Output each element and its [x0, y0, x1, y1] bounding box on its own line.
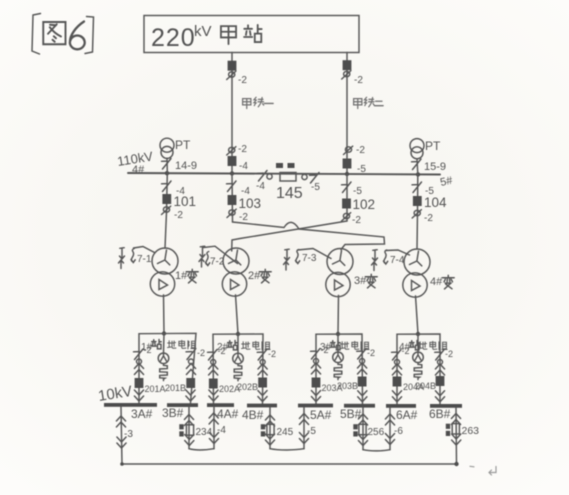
- svg-text:245: 245: [277, 427, 294, 438]
- feeder 103: bus 4# down: [231, 173, 234, 222]
- box 4: top bar and side wires: [397, 334, 440, 404]
- breaker 204B: [436, 376, 445, 386]
- svg-text:-2: -2: [174, 210, 183, 221]
- svg-text:101: 101: [174, 194, 197, 209]
- breaker 145: [280, 173, 296, 182]
- svg-text:-2: -2: [356, 145, 365, 156]
- svg-text:-2: -2: [197, 348, 205, 358]
- wire PT1 to bus: [166, 159, 168, 174]
- tie 234: wire under bus 3B#: [188, 407, 190, 449]
- svg-text:204B: 204B: [415, 381, 436, 391]
- breaker 103: [228, 195, 237, 205]
- breaker 202A: [209, 379, 218, 389]
- node: box1 junction: [162, 331, 166, 335]
- disconnector -2 (104): [412, 210, 421, 218]
- feeder 102: bus 5# down: [346, 174, 348, 221]
- svg-text:-2: -2: [238, 144, 247, 155]
- svg-text:7-2: 7-2: [210, 257, 225, 268]
- svg-text:-2: -2: [352, 215, 361, 226]
- feeder arrows (box4 left): [392, 364, 401, 375]
- svg-text:202B: 202B: [237, 382, 258, 392]
- breaker -5 on line 2: [343, 159, 352, 169]
- arrow onto bus 6A#: [392, 391, 401, 402]
- svg-text:4A#: 4A#: [217, 407, 239, 421]
- CT (256): [353, 424, 357, 436]
- breaker 201B: [186, 378, 195, 388]
- node: bus junction PT1: [165, 171, 169, 175]
- svg-text:7-4: 7-4: [390, 255, 405, 266]
- svg-text:-5: -5: [307, 426, 316, 437]
- svg-text:201A: 201A: [145, 384, 166, 394]
- arrow onto bus 4A#: [209, 390, 218, 401]
- node: box2 junction: [236, 332, 240, 336]
- arrester group 7-3: [284, 249, 332, 271]
- breaker 101: [162, 194, 171, 204]
- station box 220kV 甲站: [144, 16, 359, 53]
- disconnector -2 (box4 left): [392, 350, 402, 361]
- svg-text:4B#: 4B#: [242, 408, 264, 422]
- bus 5A#: [298, 404, 333, 408]
- svg-text:4#: 4#: [430, 276, 443, 288]
- node: bus junction line2: [345, 172, 349, 176]
- bus 4B#: [247, 404, 277, 408]
- tie 234 U link: [189, 449, 214, 450]
- arrow onto bus 5A#: [311, 391, 320, 402]
- svg-text:PT: PT: [425, 139, 441, 153]
- box 1: top bar and side wires: [139, 333, 196, 403]
- wire: transformer 1 secondary: [163, 295, 166, 334]
- wire: transformer 2 secondary: [236, 295, 239, 334]
- wire: transformer 3 secondary: [337, 295, 340, 334]
- disconnector -2 (box4 right): [435, 350, 445, 361]
- feeder arrows (box1 right): [186, 364, 195, 375]
- tie 256: wire under bus 5B#: [362, 408, 364, 450]
- tie 245 U link: [270, 449, 304, 450]
- svg-text:3A#: 3A#: [131, 407, 153, 421]
- feeder arrows (box3 left): [311, 363, 320, 374]
- line name 甲线一: [243, 97, 274, 108]
- tie 245: wire under bus 4B#: [269, 408, 271, 449]
- breaker 263: [452, 424, 459, 434]
- svg-text:6B#: 6B#: [429, 407, 451, 421]
- disconnector -2 on line 1 (top): [227, 71, 236, 79]
- svg-text:-6: -6: [394, 426, 403, 437]
- earth switch circle (box2 right): [260, 360, 265, 365]
- svg-text:102: 102: [353, 197, 376, 212]
- svg-text:-2: -2: [424, 213, 433, 224]
- disconnector 14-9: [162, 159, 172, 170]
- transformer 4#变: [403, 249, 454, 297]
- small circle left of 145: [267, 174, 272, 179]
- grounding transformer (box1): [163, 334, 166, 353]
- line name 甲线二: [354, 97, 384, 108]
- node: bus junction PT2: [416, 172, 420, 176]
- disconnector -2 (box1 left): [134, 349, 144, 360]
- feeder arrows (box4 right): [435, 364, 444, 375]
- svg-text:14-9: 14-9: [175, 160, 197, 172]
- arrow onto bus 3B#: [186, 390, 195, 401]
- bus 3B#: [167, 403, 198, 407]
- disconnector -5 (104): [412, 182, 422, 193]
- breaker -4 on line 1: [228, 156, 237, 166]
- feeder 101: bus 4# to transformer 1: [165, 173, 167, 248]
- wire: transformer 4 secondary: [416, 296, 419, 334]
- small circle right of 145: [302, 174, 307, 179]
- svg-text:-2: -2: [218, 346, 226, 356]
- arrester group 7-1: [119, 247, 155, 269]
- disconnector -2 on line 1 (lower): [227, 147, 236, 155]
- arrester group 7-2: [199, 246, 238, 267]
- svg-text:256: 256: [368, 427, 385, 438]
- node: bus junction line1: [230, 171, 234, 175]
- svg-text:15-9: 15-9: [424, 161, 446, 173]
- wire PT2 to bus: [416, 159, 419, 174]
- node: box4 junction: [416, 332, 420, 336]
- arrow onto bus 4B#: [258, 391, 267, 402]
- grounding transformer (box4): [417, 334, 419, 352]
- earth switch circle (box4 right): [438, 360, 443, 365]
- header 接地电阻 (box3): [341, 341, 370, 350]
- wire: crossover 102 to transformer 2: [232, 221, 347, 251]
- disconnector -4 (101): [162, 181, 172, 192]
- svg-text:3B#: 3B#: [162, 406, 184, 420]
- arrow onto bus 6B#: [435, 391, 444, 402]
- disconnector -2 (box3 right): [357, 349, 367, 360]
- header 3#站变: [320, 340, 340, 353]
- header 2#站变: [217, 340, 237, 353]
- box 2: top bar and side wires: [213, 334, 263, 404]
- disconnector -2 (box2 left): [208, 350, 218, 361]
- bus 6A#: [386, 404, 416, 408]
- breaker 256: [359, 424, 366, 434]
- earth switch circle (box2 left): [211, 360, 216, 365]
- breaker 203B: [358, 377, 367, 387]
- wire: line 2 from station box: [346, 53, 348, 175]
- arrow onto bus 5B#: [358, 391, 367, 402]
- feeder -3 under bus 3A#: [121, 407, 122, 464]
- earth switch circle (box1 left): [137, 359, 142, 364]
- svg-text:5#: 5#: [439, 174, 454, 188]
- arrester group 7-4: [372, 250, 410, 271]
- svg-text:-2: -2: [402, 346, 410, 356]
- feeder arrows (box1 left): [134, 364, 143, 375]
- breaker 234: [186, 425, 193, 435]
- svg-text:kV: kV: [194, 23, 212, 40]
- breaker 204A: [393, 377, 402, 387]
- disconnector -2 (102): [342, 213, 351, 221]
- PT 2 (110kV bus 5#): [410, 139, 441, 159]
- breaker 201A: [135, 378, 144, 388]
- svg-text:-2: -2: [445, 349, 453, 359]
- header 接地电阻 (box2): [242, 341, 271, 350]
- breaker 104: [413, 196, 422, 206]
- breaker on line 1 (top): [228, 61, 237, 71]
- disconnector -2 (box1 right): [186, 349, 196, 360]
- svg-text:104: 104: [424, 195, 447, 210]
- stray pen mark: [489, 467, 496, 476]
- wire: line 1 from station box: [231, 53, 233, 174]
- breaker 102: [342, 199, 351, 209]
- svg-text:6A#: 6A#: [396, 408, 418, 422]
- svg-text:-2: -2: [238, 75, 247, 86]
- svg-text:-4: -4: [256, 181, 265, 192]
- disconnector -4 (103): [227, 181, 237, 192]
- earth switch circle (box3 right): [360, 359, 365, 364]
- svg-text:7-3: 7-3: [302, 253, 317, 264]
- svg-text:-5: -5: [353, 186, 362, 197]
- feeder 104: bus 5# to transformer 4: [416, 174, 419, 249]
- box 3: top bar and side wires: [316, 334, 363, 404]
- wire: crossover 103 to transformer 3 (with hop): [233, 222, 385, 250]
- header 接地电阻 (box1): [168, 340, 197, 349]
- disconnector -2 (103): [227, 209, 236, 217]
- tie 256 U link: [363, 450, 390, 451]
- PT 1 (110kV bus 4#): [160, 138, 191, 158]
- feeder -4 under bus 4A#: [213, 407, 215, 449]
- bus 5B#: [344, 404, 375, 408]
- feeder arrows (box2 left): [209, 364, 218, 375]
- svg-text:145: 145: [276, 185, 303, 202]
- disconnector -4 (145 left): [258, 171, 268, 182]
- CT (245): [261, 424, 265, 436]
- disconnector 15-9: [412, 159, 422, 170]
- disconnector -2 (101): [162, 206, 171, 214]
- header 1#站变: [141, 339, 161, 353]
- svg-text:-5: -5: [311, 182, 320, 193]
- disconnector -2 (box2 right): [257, 350, 267, 361]
- CT (234): [179, 424, 183, 436]
- earth switch circle (box3 left): [314, 359, 319, 364]
- disconnector -2 (box3 left): [311, 349, 321, 360]
- disconnector -5 (145 right): [310, 173, 320, 184]
- feeder arrows (box3 right): [358, 363, 367, 374]
- breaker 203A: [312, 378, 321, 388]
- svg-text:-4: -4: [239, 161, 248, 172]
- disconnector -2 on line 2 (lower): [344, 146, 353, 154]
- svg-text:5A#: 5A#: [310, 408, 332, 422]
- feeder -5 under bus 5A#: [303, 408, 305, 449]
- svg-text:-4: -4: [217, 425, 226, 436]
- bus 3A#: [104, 403, 157, 407]
- feeder -6 under bus 6A#: [389, 408, 391, 450]
- tie 263: wire under bus 6B#: [455, 408, 458, 464]
- grounding transformer (box3): [337, 334, 339, 352]
- svg-text:PT: PT: [175, 138, 191, 152]
- figure label 图6: [32, 14, 94, 55]
- CT marks above 145: [276, 163, 283, 168]
- earth switch circle (box1 right): [189, 359, 194, 364]
- feeder arrows (box2 right): [258, 364, 267, 375]
- svg-text:-2: -2: [367, 348, 375, 358]
- bus tie 145 assembly: [256, 163, 320, 202]
- disconnector -5 (102): [342, 182, 352, 193]
- svg-text:-2: -2: [321, 345, 329, 355]
- node: bottom left corner: [120, 462, 124, 466]
- svg-text:4#: 4#: [132, 164, 145, 176]
- svg-text:-2: -2: [239, 212, 248, 223]
- 110kV bus 4# (left) and 5# (right): [128, 173, 440, 175]
- bus 6B#: [430, 404, 462, 408]
- wire: bottom ring tie: [122, 463, 457, 465]
- svg-text:-2: -2: [144, 345, 152, 355]
- breaker 245: [267, 424, 274, 434]
- transformer 3#变: [326, 249, 377, 297]
- svg-text:7-1: 7-1: [137, 254, 152, 265]
- svg-text:10kV: 10kV: [97, 383, 133, 405]
- svg-text:201B: 201B: [165, 383, 186, 393]
- node: box3 junction: [336, 332, 340, 336]
- grounding transformer (box2): [237, 334, 239, 353]
- arrow onto bus 3A#: [134, 390, 143, 401]
- svg-text:220: 220: [151, 24, 196, 52]
- header 4#站变: [399, 340, 419, 353]
- header 接地电阻 (box4): [419, 341, 448, 350]
- transformer 2#变: [222, 248, 271, 296]
- node: bottom right corner: [454, 462, 458, 466]
- svg-text:-2: -2: [268, 349, 276, 359]
- earth switch circle (box4 left): [395, 360, 400, 365]
- svg-text:103: 103: [239, 196, 262, 211]
- transformer 1#变: [150, 248, 198, 296]
- svg-text:203B: 203B: [337, 381, 358, 391]
- disconnector -2 on line 2 (top): [342, 71, 351, 79]
- svg-text:263: 263: [462, 425, 480, 437]
- bus 4A#: [207, 403, 234, 407]
- CT (263): [446, 424, 450, 436]
- breaker 202B: [258, 378, 267, 388]
- breaker on line 2 (top): [343, 60, 352, 70]
- svg-text:-2: -2: [354, 75, 363, 86]
